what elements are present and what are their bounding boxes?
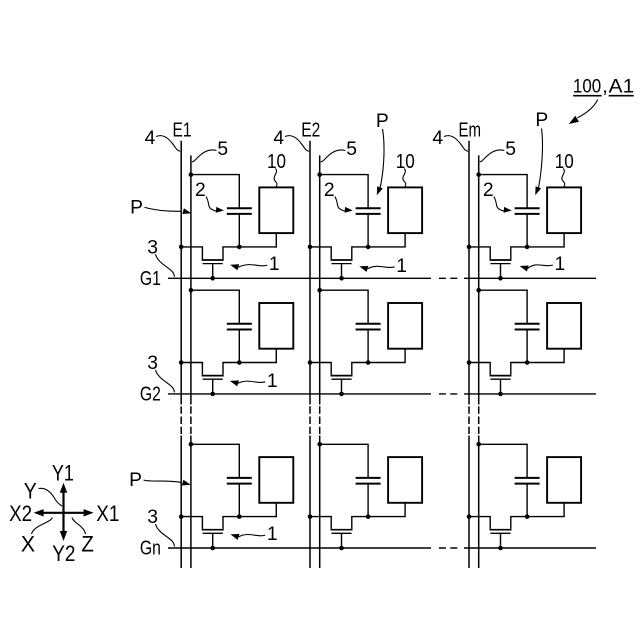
svg-text:1: 1 [555, 254, 566, 275]
transistor 1 gate wire (row G1, col E2) [341, 264, 343, 279]
leader 10 (col E2) [403, 169, 406, 187]
transistor 1 gate wire (row Gn, col E1) [212, 533, 214, 548]
junction dot capacitor/bottom wire (row Gn, col E2) [366, 514, 371, 519]
transistor 1 channel bar (row G1, col E1) [202, 259, 224, 261]
electrode line 5 dashed continuation (E1) [190, 406, 192, 434]
leader 5 (Em) [480, 150, 505, 162]
junction dot line5/top wire (row G1, col Em) [476, 172, 481, 177]
transistor 1 gate bar (row Gn, col E1) [203, 532, 223, 534]
transistor 1 gate wire (row G2, col E1) [212, 379, 214, 394]
wire bottom node (row G1, col E1) [181, 247, 202, 259]
gate line Gn (solid right part) [464, 547, 596, 549]
junction dot line4/bottom wire (row G1, col E2) [308, 245, 313, 250]
leader X [32, 518, 53, 535]
axes: vertical Y1-Y2 arrow [62, 490, 64, 536]
gate line G2 (solid left part) [168, 393, 431, 395]
element 10 rectangle (row G1, col Em) [547, 187, 581, 233]
transistor 1 channel bar (row Gn, col E1) [202, 529, 224, 531]
wire top node (row Gn, col E1) [191, 444, 239, 478]
transistor 1 gate bar (row G2, col E1) [203, 378, 223, 380]
transistor 1 gate bar (row G1, col Em) [490, 263, 510, 265]
capacitor 2 (row G2, col Em) [515, 323, 540, 325]
electrode line 5 lower part (E1) [190, 436, 192, 569]
svg-text:Y: Y [24, 479, 37, 504]
leader Z [72, 518, 86, 535]
junction dot gate/G1 (row G1, col Em) [498, 276, 503, 281]
wire capacitor to bottom node (row Gn, col E2) [367, 484, 369, 517]
junction dot line4/bottom wire (row Gn, col Em) [467, 514, 472, 519]
junction dot line5/top wire (row G1, col E2) [317, 172, 322, 177]
wire capacitor to bottom node (row G2, col E1) [238, 330, 240, 363]
wire bottom node (row Gn, col E1) [181, 517, 202, 529]
leader 4 (E1) [156, 136, 180, 152]
svg-text:Gn: Gn [140, 538, 161, 560]
capacitor 2 (row G1, col E1) [227, 207, 252, 209]
wire bottom node (row Gn, col E2) [310, 517, 331, 529]
transistor 1 channel bar (row G2, col Em) [490, 375, 512, 377]
junction dot capacitor/bottom wire (row G2, col E1) [237, 360, 242, 365]
junction dot gate/Gn (row Gn, col E1) [210, 546, 215, 551]
junction dot line5/top wire (row Gn, col E2) [317, 442, 322, 447]
electrode line 4 (Em column) [468, 141, 470, 405]
junction dot line4/bottom wire (row G1, col E1) [179, 245, 184, 250]
junction dot capacitor/bottom wire (row Gn, col E1) [237, 514, 242, 519]
junction dot capacitor/bottom wire (row G1, col E2) [366, 245, 371, 250]
element 10 rectangle (row Gn, col Em) [547, 457, 581, 503]
leader 5 (E2) [321, 150, 346, 162]
junction dot capacitor/bottom wire (row G1, col E1) [237, 245, 242, 250]
leader P with arrow (row G1, col E2) [380, 129, 384, 188]
svg-text:2: 2 [195, 180, 206, 201]
electrode line 4 dashed continuation (E1) [180, 406, 182, 434]
svg-text:2: 2 [324, 180, 335, 201]
junction dot gate/G2 (row G2, col Em) [498, 392, 503, 397]
svg-text:G1: G1 [140, 268, 161, 290]
wire capacitor to bottom node (row G2, col Em) [526, 330, 528, 363]
transistor 1 gate wire (row G2, col E2) [341, 379, 343, 394]
junction dot line4/bottom wire (row Gn, col E1) [179, 514, 184, 519]
element 10 rectangle (row G2, col E2) [388, 303, 422, 349]
junction dot capacitor/bottom wire (row Gn, col Em) [525, 514, 530, 519]
transistor 1 channel bar (row G2, col E1) [202, 375, 224, 377]
junction dot line5/top wire (row Gn, col Em) [476, 442, 481, 447]
transistor 1 gate wire (row Gn, col E2) [341, 533, 343, 548]
electrode line 4 dashed continuation (Em) [468, 406, 470, 434]
leader 3 (Gn) [156, 524, 175, 547]
leader 2 with arrow (col E2) [335, 197, 346, 211]
svg-text:5: 5 [217, 139, 228, 160]
junction dot line4/bottom wire (row G1, col Em) [467, 245, 472, 250]
transistor 1 channel bar (row Gn, col E2) [331, 529, 353, 531]
leader 100,A1 with arrow [578, 100, 598, 118]
junction dot line4/bottom wire (row G2, col Em) [467, 360, 472, 365]
gate line Gn (solid left part) [168, 547, 431, 549]
underline of 100 [573, 95, 601, 97]
junction dot capacitor/bottom wire (row G2, col E2) [366, 360, 371, 365]
transistor 1 gate wire (row G2, col Em) [500, 379, 502, 394]
axes: horizontal X1-X2 arrow [40, 512, 87, 514]
svg-text:1: 1 [396, 256, 407, 277]
leader 1 with arrow (row Gn, col E1) [239, 534, 266, 536]
gate line G1 (solid left part) [168, 277, 431, 279]
junction dot line4/bottom wire (row G2, col E2) [308, 360, 313, 365]
svg-text:P: P [130, 198, 143, 219]
wire top node (row Gn, col E2) [320, 444, 368, 478]
leader P with arrow (row G1, col E1) [145, 207, 181, 211]
gate line G1 (solid right part) [464, 277, 596, 279]
electrode line 4 lower part (Em) [468, 436, 470, 569]
svg-text:E2: E2 [301, 119, 320, 142]
leader 2 with arrow (col E1) [206, 197, 217, 211]
junction dot capacitor/bottom wire (row G1, col Em) [525, 245, 530, 250]
transistor 1 gate bar (row G1, col E1) [203, 263, 223, 265]
element 10 rectangle (row Gn, col E1) [259, 457, 293, 503]
element 10 rectangle (row G1, col E2) [388, 187, 422, 233]
svg-text:4: 4 [432, 128, 443, 149]
svg-text:5: 5 [346, 139, 357, 160]
wire capacitor to bottom node (row G1, col Em) [526, 214, 528, 247]
wire top node (row G2, col E2) [320, 290, 368, 324]
gate line G2 (solid right part) [464, 393, 596, 395]
transistor 1 channel bar (row G2, col E2) [331, 375, 353, 377]
wire capacitor to bottom node (row Gn, col Em) [526, 484, 528, 517]
electrode line 5 lower part (E2) [319, 436, 321, 569]
transistor 1 gate wire (row G1, col Em) [500, 264, 502, 279]
gate line G2 dashed continuation [439, 393, 457, 395]
junction dot line5/top wire (row G2, col E1) [189, 288, 194, 293]
svg-text:Em: Em [459, 119, 482, 142]
wire top node (row Gn, col Em) [479, 444, 527, 478]
transistor 1 gate bar (row G1, col E2) [331, 263, 351, 265]
junction dot line4/bottom wire (row G2, col E1) [179, 360, 184, 365]
junction dot line4/bottom wire (row Gn, col E2) [308, 514, 313, 519]
svg-text:1: 1 [267, 371, 278, 392]
wire top node (row G2, col Em) [479, 290, 527, 324]
svg-text:,: , [602, 76, 607, 98]
electrode line 5 (E2 column) [319, 155, 321, 404]
svg-text:100: 100 [573, 76, 601, 98]
leader 3 (G2) [156, 370, 175, 393]
electrode line 5 (E1 column) [190, 155, 192, 404]
leader 1 with arrow (row G1, col Em) [528, 265, 553, 269]
wire top node (row G1, col E1) [191, 175, 239, 209]
transistor 1 channel bar (row Gn, col Em) [490, 529, 512, 531]
svg-text:Y1: Y1 [52, 461, 74, 486]
leader 4 (Em) [444, 136, 468, 152]
leader 1 with arrow (row G1, col E2) [368, 266, 395, 269]
leader P with arrow (row G1, col Em) [539, 129, 543, 188]
capacitor 2 (row G1, col Em) [515, 207, 540, 209]
svg-text:4: 4 [145, 128, 156, 149]
leader 10 (col E1) [274, 169, 277, 187]
capacitor 2 (row G2, col E1) [227, 323, 252, 325]
junction dot line5/top wire (row G2, col E2) [317, 288, 322, 293]
leader 10 (col Em) [562, 169, 565, 187]
electrode line 4 (E2 column) [309, 141, 311, 405]
wire bottom node (row G2, col E2) [310, 363, 331, 375]
gate line G1 dashed continuation [439, 277, 457, 279]
electrode line 5 dashed continuation (E2) [319, 406, 321, 434]
wire capacitor to bottom node (row G1, col E2) [367, 214, 369, 247]
svg-text:P: P [129, 470, 142, 491]
electrode line 4 lower part (E1) [180, 436, 182, 569]
electrode line 5 (Em column) [478, 155, 480, 404]
electrode line 4 dashed continuation (E2) [309, 406, 311, 434]
leader P with arrow (row Gn, col E1) [144, 480, 181, 482]
svg-text:1: 1 [269, 254, 280, 275]
svg-text:Y2: Y2 [52, 541, 75, 566]
electrode line 5 dashed continuation (Em) [478, 406, 480, 434]
gate line Gn dashed continuation [439, 547, 457, 549]
element 10 rectangle (row G2, col Em) [547, 303, 581, 349]
capacitor 2 (row Gn, col E1) [227, 477, 252, 479]
junction dot capacitor/bottom wire (row G2, col Em) [525, 360, 530, 365]
wire top node (row G1, col Em) [479, 175, 527, 209]
element 10 rectangle (row G2, col E1) [259, 303, 293, 349]
underline of A1 [609, 95, 634, 97]
transistor 1 channel bar (row G1, col E2) [331, 259, 353, 261]
wire bottom node (row G2, col Em) [469, 363, 490, 375]
wire bottom node (row Gn, col Em) [469, 517, 490, 529]
leader 1 with arrow (row G2, col E1) [238, 381, 265, 383]
electrode line 5 lower part (Em) [478, 436, 480, 569]
leader 3 (G1) [156, 254, 175, 276]
transistor 1 gate bar (row G2, col E2) [331, 378, 351, 380]
transistor 1 gate bar (row Gn, col Em) [490, 532, 510, 534]
junction dot line5/top wire (row G2, col Em) [476, 288, 481, 293]
electrode line 4 (E1 column) [180, 141, 182, 405]
junction dot line5/top wire (row Gn, col E1) [189, 442, 194, 447]
svg-text:X1: X1 [96, 501, 119, 526]
wire capacitor to bottom node (row Gn, col E1) [238, 484, 240, 517]
transistor 1 gate bar (row Gn, col E2) [331, 532, 351, 534]
element 10 rectangle (row G1, col E1) [259, 187, 293, 233]
transistor 1 gate bar (row G2, col Em) [490, 378, 510, 380]
leader 5 (E1) [192, 150, 217, 162]
svg-text:G2: G2 [140, 383, 161, 405]
svg-text:Z: Z [81, 531, 94, 556]
wire bottom node (row G1, col Em) [469, 247, 490, 259]
transistor 1 channel bar (row G1, col Em) [490, 259, 512, 261]
transistor 1 gate wire (row G1, col E1) [212, 264, 214, 279]
svg-text:1: 1 [267, 524, 278, 545]
junction dot line5/top wire (row G1, col E1) [189, 172, 194, 177]
leader 4 (E2) [285, 136, 309, 152]
capacitor 2 (row Gn, col E2) [356, 477, 381, 479]
svg-text:X: X [21, 531, 35, 556]
junction dot gate/G1 (row G1, col E1) [210, 276, 215, 281]
leader Y [39, 488, 63, 506]
svg-text:4: 4 [273, 128, 284, 149]
leader 1 with arrow (row G1, col E1) [238, 265, 267, 268]
electrode line 4 lower part (E2) [309, 436, 311, 569]
capacitor 2 (row G1, col E2) [356, 207, 381, 209]
transistor 1 gate wire (row Gn, col Em) [500, 533, 502, 548]
junction dot gate/G1 (row G1, col E2) [339, 276, 344, 281]
svg-text:P: P [376, 111, 389, 132]
wire bottom node (row G1, col E2) [310, 247, 331, 259]
wire bottom node (row G2, col E1) [181, 363, 202, 375]
wire top node (row G2, col E1) [191, 290, 239, 324]
svg-text:5: 5 [505, 139, 516, 160]
capacitor 2 (row Gn, col Em) [515, 477, 540, 479]
wire top node (row G1, col E2) [320, 175, 368, 209]
element 10 rectangle (row Gn, col E2) [388, 457, 422, 503]
svg-text:A1: A1 [609, 76, 635, 98]
wire capacitor to bottom node (row G2, col E2) [367, 330, 369, 363]
junction dot gate/Gn (row Gn, col E2) [339, 546, 344, 551]
capacitor 2 (row G2, col E2) [356, 323, 381, 325]
svg-text:E1: E1 [173, 119, 192, 142]
svg-text:X2: X2 [9, 501, 32, 526]
leader 2 with arrow (col Em) [494, 197, 505, 211]
junction dot gate/G2 (row G2, col E1) [210, 392, 215, 397]
svg-text:2: 2 [483, 180, 494, 201]
junction dot gate/Gn (row Gn, col Em) [498, 546, 503, 551]
wire capacitor to bottom node (row G1, col E1) [238, 214, 240, 247]
svg-text:P: P [535, 110, 548, 131]
junction dot gate/G2 (row G2, col E2) [339, 392, 344, 397]
